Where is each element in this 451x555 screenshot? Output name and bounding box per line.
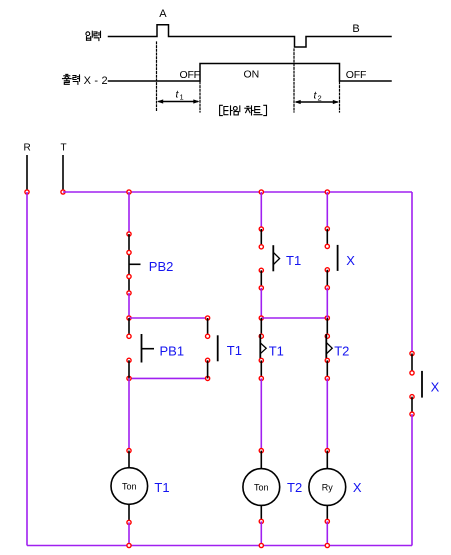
contact T1 (NO, time-delay): bar	[272, 245, 274, 271]
svg-text:T2: T2	[334, 343, 349, 358]
node top bus / branch 2	[259, 190, 263, 194]
wire top bus	[63, 191, 412, 193]
node X contact upper terminal	[410, 371, 414, 375]
node T rail top	[61, 190, 65, 194]
wire T1 NC delay lower stub	[260, 360, 262, 378]
node coil T1 lower lead	[127, 520, 131, 524]
node PB2 upper lead	[127, 232, 131, 236]
node T2 NC delay lower terminal	[325, 358, 329, 362]
contact T1 (NC, time-delay): bar through	[259, 334, 261, 362]
node T2 NC delay upper terminal	[325, 334, 329, 338]
contact X (NO)	[337, 245, 339, 271]
node top bus / branch 1	[127, 190, 131, 194]
label 입력 (input)	[86, 31, 92, 40]
svg-text:PB1: PB1	[160, 343, 185, 358]
node T1 delay contact lower terminal	[259, 268, 263, 272]
node X contact lower lead	[410, 412, 414, 416]
node T1 contact lower terminal	[206, 358, 210, 362]
node X contact lower terminal	[410, 395, 414, 399]
node X contact lower terminal	[325, 268, 329, 272]
contact T1 NC time-delay triangle	[260, 343, 266, 354]
wire coil T2 lower stub	[260, 505, 262, 521]
contact PB1 (NO pushbutton): bar	[141, 334, 143, 363]
svg-text:Ton: Ton	[254, 482, 269, 492]
node branch3 segment end	[325, 376, 329, 380]
wire right rail upper	[411, 192, 413, 354]
wire coil T1 upper stub	[128, 451, 130, 468]
label 출력 X - 2 (output X - 2)	[63, 74, 72, 84]
node coil X upper lead	[325, 449, 329, 453]
node X contact lower lead	[325, 286, 329, 290]
wire X contact lower stub	[326, 270, 328, 288]
dimension arrow t2	[295, 100, 340, 104]
dashed guide line at output turn-off	[339, 82, 341, 112]
wire T1 NC delay upper stub	[260, 318, 262, 336]
svg-text:T: T	[61, 143, 67, 154]
wire branch1 from top bus	[128, 192, 130, 234]
svg-text:PB2: PB2	[149, 259, 174, 274]
wire T1 contact upper stub	[207, 318, 209, 336]
node T1 delay contact upper terminal	[259, 245, 263, 249]
svg-text:Ry: Ry	[322, 482, 333, 492]
wire output waveform	[109, 64, 392, 82]
label [타임 차트] (timing chart)	[220, 105, 223, 115]
contact PB1: actuator tick	[142, 348, 155, 350]
svg-text:T1: T1	[269, 343, 284, 358]
node top bus / branch 3	[325, 190, 329, 194]
wire X contact upper stub	[411, 354, 413, 373]
wire coil X lower stub	[326, 505, 328, 521]
node X contact upper lead	[325, 227, 329, 231]
junction parallel block bottom right	[206, 376, 210, 380]
contact T2 NC time-delay triangle	[326, 343, 332, 354]
wire branch2 to bottom bus	[260, 521, 262, 545]
dashed guide line at output turn-on	[199, 82, 201, 112]
svg-text:A: A	[159, 8, 167, 20]
wire X contact lower stub	[411, 397, 413, 414]
node T1 delay contact lower lead	[259, 286, 263, 290]
contact T1 time-delay triangle	[273, 252, 279, 264]
wire branch2 from top bus	[260, 192, 262, 229]
wire T lead	[62, 155, 64, 192]
wire branch2 to coil	[260, 378, 262, 450]
wire coil T1 lower stub	[128, 504, 130, 522]
wire T1 contact lower stub	[207, 360, 209, 378]
wire bottom bus	[27, 545, 412, 547]
wire branch2 middle	[260, 288, 262, 318]
svg-text:2: 2	[318, 94, 322, 103]
wire left rail (R)	[26, 192, 28, 546]
junction parallel block bottom left	[127, 376, 131, 380]
node bottom bus / branch3	[325, 543, 329, 547]
svg-text:OFF: OFF	[180, 69, 200, 81]
node PB2 upper terminal	[127, 250, 131, 254]
wire PB2 body stub	[128, 234, 130, 293]
node PB2 lower lead	[127, 291, 131, 295]
node bottom bus / branch1	[127, 543, 131, 547]
wire input waveform with pulse A and notch B	[109, 25, 392, 47]
node PB1 lower terminal	[127, 358, 131, 362]
svg-text:T1: T1	[286, 253, 301, 268]
contact PB2 (NC pushbutton): actuator tick	[129, 263, 141, 265]
contact T1 (NO)	[217, 335, 219, 361]
node coil T2 lower lead	[259, 519, 263, 523]
svg-text:T1: T1	[154, 480, 169, 495]
node X contact upper lead	[410, 351, 414, 355]
node coil T2 upper lead	[259, 449, 263, 453]
wire branch3 to coil	[326, 378, 328, 450]
svg-text:B: B	[352, 23, 359, 35]
node T1 NC delay upper terminal	[259, 334, 263, 338]
node X contact upper terminal	[325, 244, 329, 248]
wire PB1 lower stub	[128, 360, 130, 378]
wire branch3 middle	[326, 288, 328, 318]
wire PB2 to parallel block	[128, 293, 130, 318]
coil Ton T2 (on-delay timer)	[243, 469, 280, 506]
node bottom bus / branch2	[259, 543, 263, 547]
wire coil X upper stub	[326, 451, 328, 469]
node T1 NC delay lower terminal	[259, 358, 263, 362]
dashed guide line at notch B	[293, 49, 295, 112]
wire branch3 to bottom bus	[326, 521, 328, 545]
wire T2 NC delay upper stub	[326, 318, 328, 336]
wire parallel block top rung	[129, 317, 208, 319]
wire R lead	[26, 155, 28, 192]
wire T1 delay contact lower stub	[260, 270, 262, 288]
wire T1 delay contact upper stub	[260, 229, 262, 247]
wire branch3 from top bus	[326, 192, 328, 229]
wire X contact upper stub	[326, 229, 328, 247]
wire branch1 to bottom bus	[128, 522, 130, 545]
svg-text:Ton: Ton	[122, 481, 137, 491]
svg-text:X: X	[431, 380, 440, 395]
svg-text:X: X	[353, 480, 362, 495]
junction parallel block top left	[127, 316, 131, 320]
wire branch1 to coil	[128, 378, 130, 450]
node PB2 lower terminal	[127, 274, 131, 278]
dimension arrow t1	[157, 99, 200, 103]
node PB1 upper terminal	[127, 334, 131, 338]
wire parallel block bottom rung	[129, 377, 208, 379]
wire T2 NC delay lower stub	[326, 360, 328, 378]
wire tie rung branch2-branch3	[261, 317, 327, 319]
svg-text:ON: ON	[244, 68, 260, 80]
svg-text:X - 2: X - 2	[84, 75, 108, 87]
svg-text:R: R	[24, 143, 31, 154]
junction branch2/branch3 tie right	[325, 316, 329, 320]
coil Ry X (relay)	[309, 469, 346, 506]
node T1 contact upper terminal	[206, 334, 210, 338]
dashed guide line at pulse A rising edge	[156, 42, 158, 112]
junction parallel block top right	[206, 316, 210, 320]
node T1 delay contact upper lead	[259, 227, 263, 231]
svg-text:X: X	[346, 253, 355, 268]
contact X (NO, right rail)	[421, 371, 423, 398]
svg-text:1: 1	[180, 93, 184, 102]
node R rail top	[25, 190, 29, 194]
junction branch2/branch3 tie left	[259, 316, 263, 320]
coil Ton T1 (on-delay timer)	[111, 468, 148, 505]
svg-text:OFF: OFF	[346, 69, 366, 81]
wire PB1 upper stub	[128, 318, 130, 336]
node branch2 segment end	[259, 376, 263, 380]
contact T2 (NC, time-delay): bar through	[325, 334, 327, 362]
wire right rail lower	[411, 414, 413, 545]
node coil T1 upper lead	[127, 449, 131, 453]
wire coil T2 upper stub	[260, 451, 262, 469]
svg-text:T2: T2	[287, 480, 302, 495]
node coil X lower lead	[325, 519, 329, 523]
svg-text:T1: T1	[227, 343, 242, 358]
